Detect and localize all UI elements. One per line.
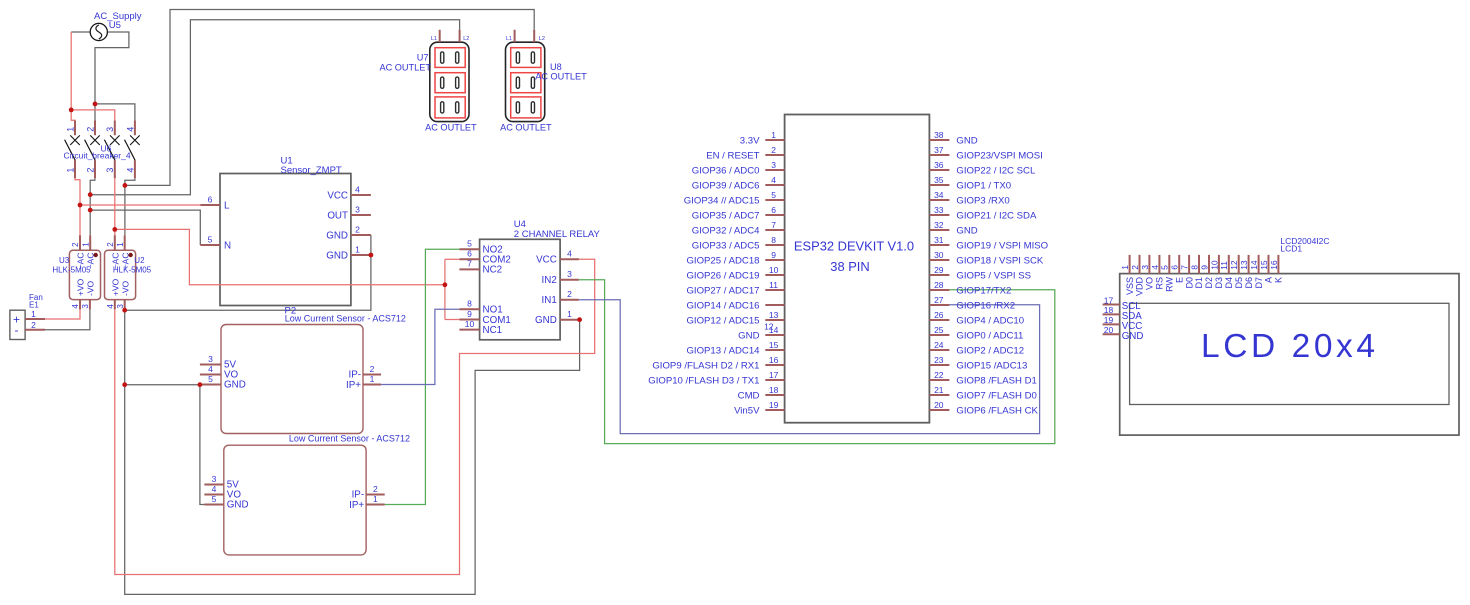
svg-text:GIOP16 /RX2: GIOP16 /RX2: [956, 300, 1015, 311]
svg-text:E1: E1: [29, 300, 39, 309]
svg-text:GIOP12 / ADC15: GIOP12 / ADC15: [686, 315, 759, 326]
svg-text:GND: GND: [227, 500, 249, 511]
svg-text:D1: D1: [1194, 277, 1204, 289]
svg-text:GND: GND: [956, 225, 977, 236]
svg-text:U3: U3: [59, 256, 70, 265]
svg-text:1: 1: [567, 309, 572, 319]
svg-text:+VO: +VO: [75, 278, 85, 296]
svg-text:23: 23: [934, 355, 944, 365]
svg-text:2: 2: [85, 168, 95, 173]
svg-text:29: 29: [934, 265, 944, 275]
svg-text:37: 37: [934, 145, 944, 155]
svg-text:GIOP6 /FLASH CK: GIOP6 /FLASH CK: [956, 405, 1038, 416]
svg-text:D0: D0: [1184, 277, 1194, 289]
svg-text:AC OUTLET: AC OUTLET: [379, 62, 431, 72]
svg-text:AC OUTLET: AC OUTLET: [500, 123, 552, 133]
svg-text:GND: GND: [738, 330, 759, 341]
svg-text:17: 17: [1104, 295, 1114, 305]
svg-text:2: 2: [85, 127, 95, 132]
svg-text:4: 4: [125, 168, 135, 173]
svg-text:5: 5: [1160, 265, 1170, 270]
svg-text:GIOP2 / ADC12: GIOP2 / ADC12: [956, 345, 1024, 356]
svg-text:33: 33: [934, 205, 944, 215]
svg-text:38: 38: [934, 130, 944, 140]
svg-text:ESP32 DEVKIT V1.0: ESP32 DEVKIT V1.0: [794, 238, 914, 253]
svg-text:RW: RW: [1165, 277, 1175, 292]
svg-text:1: 1: [370, 374, 375, 384]
svg-text:10: 10: [1209, 260, 1219, 270]
svg-text:NC1: NC1: [483, 325, 503, 336]
svg-text:25: 25: [934, 325, 944, 335]
svg-text:9: 9: [771, 250, 776, 260]
svg-text:EN / RESET: EN / RESET: [706, 150, 759, 161]
svg-text:3: 3: [355, 204, 360, 214]
svg-text:GIOP27 / ADC17: GIOP27 / ADC17: [686, 285, 759, 296]
svg-text:GIOP14 / ADC16: GIOP14 / ADC16: [686, 300, 759, 311]
svg-text:GIOP36 / ADC0: GIOP36 / ADC0: [692, 165, 760, 176]
svg-text:1: 1: [373, 494, 378, 504]
svg-text:3: 3: [1140, 265, 1150, 270]
svg-text:E: E: [1174, 277, 1184, 283]
svg-text:6: 6: [771, 205, 776, 215]
svg-text:22: 22: [934, 370, 944, 380]
svg-text:19: 19: [1104, 315, 1114, 325]
svg-text:14: 14: [1249, 260, 1259, 270]
svg-text:4: 4: [106, 304, 115, 309]
svg-text:34: 34: [934, 190, 944, 200]
svg-text:GIOP25 / ADC18: GIOP25 / ADC18: [686, 255, 759, 266]
svg-text:6: 6: [208, 194, 213, 204]
svg-text:GIOP21 / I2C SDA: GIOP21 / I2C SDA: [956, 210, 1037, 221]
svg-text:3: 3: [567, 269, 572, 279]
svg-text:LCD1: LCD1: [1280, 243, 1302, 253]
svg-text:2: 2: [771, 145, 776, 155]
svg-text:GIOP13 / ADC14: GIOP13 / ADC14: [686, 345, 760, 356]
svg-text:L1: L1: [506, 36, 512, 42]
svg-text:GIOP22 / I2C SCL: GIOP22 / I2C SCL: [956, 165, 1036, 176]
svg-text:GIOP35 / ADC7: GIOP35 / ADC7: [692, 210, 760, 221]
svg-text:9: 9: [1199, 265, 1209, 270]
svg-text:GND: GND: [535, 315, 557, 326]
svg-text:D4: D4: [1224, 277, 1234, 289]
svg-text:26: 26: [934, 310, 944, 320]
svg-text:Low Current Sensor - ACS712: Low Current Sensor - ACS712: [289, 433, 410, 443]
svg-text:4: 4: [567, 249, 572, 259]
svg-text:5: 5: [208, 374, 213, 384]
svg-text:17: 17: [769, 370, 779, 380]
svg-text:2: 2: [106, 242, 115, 247]
svg-text:GIOP17/TX2: GIOP17/TX2: [956, 285, 1011, 296]
svg-text:GIOP1 / TX0: GIOP1 / TX0: [956, 180, 1011, 191]
svg-text:A: A: [1264, 277, 1274, 283]
svg-text:4: 4: [71, 304, 80, 309]
svg-text:2: 2: [567, 289, 572, 299]
svg-text:OUT: OUT: [327, 210, 348, 221]
svg-text:11: 11: [769, 280, 778, 290]
svg-text:3: 3: [81, 304, 90, 309]
svg-text:3: 3: [771, 160, 776, 170]
svg-text:3.3V: 3.3V: [740, 135, 760, 146]
svg-text:D2: D2: [1204, 277, 1214, 289]
svg-text:GIOP32 / ADC4: GIOP32 / ADC4: [692, 225, 760, 236]
svg-text:K: K: [1274, 277, 1284, 283]
svg-text:D6: D6: [1244, 277, 1254, 289]
svg-text:1: 1: [355, 244, 360, 254]
svg-text:30: 30: [934, 250, 944, 260]
svg-text:3: 3: [105, 168, 115, 173]
svg-text:Low Current Sensor - ACS712: Low Current Sensor - ACS712: [285, 314, 406, 324]
svg-text:36: 36: [934, 160, 944, 170]
svg-text:GIOP10 /FLASH D3 / TX1: GIOP10 /FLASH D3 / TX1: [648, 375, 759, 386]
svg-text:3: 3: [116, 304, 125, 309]
svg-text:16: 16: [769, 355, 779, 365]
svg-text:GIOP26 / ADC19: GIOP26 / ADC19: [686, 270, 759, 281]
svg-text:7: 7: [771, 220, 776, 230]
svg-text:5: 5: [212, 494, 217, 504]
svg-text:2: 2: [31, 320, 36, 330]
svg-text:GIOP8 /FLASH D1: GIOP8 /FLASH D1: [956, 375, 1037, 386]
svg-text:N: N: [224, 240, 231, 251]
svg-text:AC OUTLET: AC OUTLET: [425, 123, 477, 133]
svg-text:GND: GND: [224, 380, 246, 391]
svg-text:L2: L2: [539, 36, 545, 42]
svg-text:20: 20: [934, 400, 944, 410]
svg-text:7: 7: [1180, 265, 1190, 270]
svg-text:19: 19: [769, 400, 779, 410]
svg-text:L1: L1: [431, 36, 437, 42]
svg-text:18: 18: [1104, 305, 1114, 315]
svg-text:14: 14: [769, 325, 779, 335]
svg-text:GIOP15 /ADC13: GIOP15 /ADC13: [956, 360, 1027, 371]
svg-text:27: 27: [934, 295, 944, 305]
svg-text:VDD: VDD: [1135, 277, 1145, 297]
svg-text:20: 20: [1104, 325, 1114, 335]
svg-text:GIOP23/VSPI MOSI: GIOP23/VSPI MOSI: [956, 150, 1042, 161]
svg-text:+VO: +VO: [111, 278, 121, 296]
svg-text:2: 2: [71, 242, 80, 247]
svg-text:1: 1: [81, 242, 90, 247]
svg-text:-VO: -VO: [121, 281, 131, 297]
svg-text:10: 10: [769, 265, 779, 275]
svg-text:1: 1: [65, 168, 75, 173]
svg-text:4: 4: [212, 484, 217, 494]
svg-text:~AC: ~AC: [121, 253, 131, 270]
svg-text:IN2: IN2: [542, 275, 557, 286]
svg-text:7: 7: [467, 259, 472, 269]
svg-text:D5: D5: [1234, 277, 1244, 289]
svg-text:VO: VO: [1145, 277, 1155, 290]
svg-text:4: 4: [1150, 265, 1160, 270]
svg-text:2: 2: [373, 484, 378, 494]
svg-text:GIOP33 / ADC5: GIOP33 / ADC5: [692, 240, 760, 251]
svg-text:Sensor_ZMPT: Sensor_ZMPT: [281, 165, 342, 176]
svg-text:8: 8: [1189, 265, 1199, 270]
svg-text:35: 35: [934, 175, 944, 185]
svg-text:GIOP18 / VSPI SCK: GIOP18 / VSPI SCK: [956, 255, 1044, 266]
svg-text:GND: GND: [956, 135, 977, 146]
svg-text:1: 1: [31, 309, 36, 319]
svg-text:GIOP7 /FLASH D0: GIOP7 /FLASH D0: [956, 390, 1037, 401]
svg-text:31: 31: [934, 235, 944, 245]
svg-text:9: 9: [467, 309, 472, 319]
svg-text:3: 3: [212, 474, 217, 484]
svg-text:16: 16: [1269, 260, 1279, 270]
svg-text:Vin5V: Vin5V: [734, 405, 760, 416]
svg-text:GIOP9 /FLASH D2 / RX1: GIOP9 /FLASH D2 / RX1: [652, 360, 759, 371]
svg-text:GND: GND: [326, 230, 348, 241]
svg-text:11: 11: [1219, 261, 1229, 270]
svg-text:GIOP5 / VSPI SS: GIOP5 / VSPI SS: [956, 270, 1031, 281]
svg-text:32: 32: [934, 220, 944, 230]
svg-text:L2: L2: [463, 36, 469, 42]
svg-text:~AC: ~AC: [76, 253, 86, 270]
svg-text:Circuit_breaker_4: Circuit_breaker_4: [64, 151, 131, 161]
svg-text:28: 28: [934, 280, 944, 290]
svg-text:GIOP34 // ADC15: GIOP34 // ADC15: [684, 195, 760, 206]
svg-text:CMD: CMD: [738, 390, 760, 401]
svg-text:AC OUTLET: AC OUTLET: [535, 72, 587, 82]
svg-text:10: 10: [465, 319, 475, 329]
svg-text:LCD 20x4: LCD 20x4: [1201, 328, 1375, 365]
svg-text:3: 3: [105, 127, 115, 132]
svg-text:5: 5: [467, 239, 472, 249]
svg-text:2: 2: [370, 364, 375, 374]
svg-text:VSS: VSS: [1125, 277, 1135, 295]
svg-text:RS: RS: [1155, 277, 1165, 290]
svg-text:6: 6: [467, 249, 472, 259]
svg-text:1: 1: [65, 127, 75, 132]
svg-text:GIOP4 / ADC10: GIOP4 / ADC10: [956, 315, 1024, 326]
svg-text:IP+: IP+: [346, 380, 361, 391]
svg-text:GND: GND: [1122, 331, 1144, 342]
svg-text:GIOP3 /RX0: GIOP3 /RX0: [956, 195, 1009, 206]
svg-text:5: 5: [208, 234, 213, 244]
svg-text:GIOP19 / VSPI MISO: GIOP19 / VSPI MISO: [956, 240, 1048, 251]
svg-text:-: -: [15, 323, 19, 337]
svg-text:VCC: VCC: [536, 255, 557, 266]
svg-text:21: 21: [934, 385, 944, 395]
svg-text:1: 1: [116, 242, 125, 247]
svg-text:4: 4: [771, 175, 776, 185]
svg-text:4: 4: [355, 184, 360, 194]
svg-text:L: L: [224, 200, 230, 211]
svg-text:4: 4: [125, 127, 135, 132]
svg-text:~AC: ~AC: [86, 253, 96, 270]
svg-text:4: 4: [208, 364, 213, 374]
svg-text:8: 8: [467, 299, 472, 309]
svg-text:15: 15: [1259, 260, 1269, 270]
svg-text:U5: U5: [109, 20, 121, 31]
svg-text:8: 8: [771, 235, 776, 245]
svg-text:24: 24: [934, 340, 944, 350]
svg-text:5: 5: [771, 190, 776, 200]
svg-text:GND: GND: [326, 250, 348, 261]
svg-text:VCC: VCC: [327, 190, 348, 201]
svg-text:3: 3: [208, 354, 213, 364]
svg-text:38 PIN: 38 PIN: [830, 259, 869, 274]
svg-text:NC2: NC2: [483, 265, 503, 276]
svg-text:IP+: IP+: [349, 500, 364, 511]
svg-text:-VO: -VO: [85, 281, 95, 297]
svg-text:13: 13: [1239, 260, 1249, 270]
svg-text:GIOP39 / ADC6: GIOP39 / ADC6: [692, 180, 760, 191]
svg-text:U2: U2: [134, 256, 145, 265]
svg-text:2 CHANNEL RELAY: 2 CHANNEL RELAY: [514, 229, 601, 240]
svg-text:IN1: IN1: [542, 295, 557, 306]
svg-text:2: 2: [355, 224, 360, 234]
svg-text:GIOP0 / ADC11: GIOP0 / ADC11: [956, 330, 1023, 341]
svg-text:D7: D7: [1254, 277, 1264, 289]
svg-text:1: 1: [771, 130, 776, 140]
svg-text:D3: D3: [1214, 277, 1224, 289]
svg-text:1: 1: [1120, 265, 1130, 270]
svg-text:6: 6: [1170, 265, 1180, 270]
svg-text:12: 12: [1229, 260, 1239, 270]
svg-text:U7: U7: [417, 53, 429, 63]
svg-text:2: 2: [1130, 265, 1140, 270]
svg-text:18: 18: [769, 385, 779, 395]
svg-text:13: 13: [769, 310, 779, 320]
svg-text:15: 15: [769, 340, 779, 350]
svg-text:~AC: ~AC: [111, 253, 121, 270]
